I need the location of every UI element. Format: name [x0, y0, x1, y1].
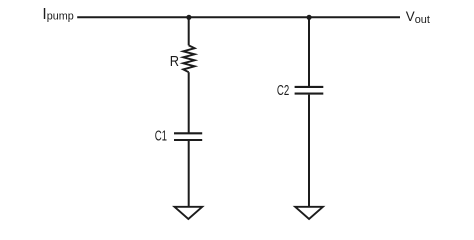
ground left [175, 207, 203, 219]
svg-text:C1: C1 [155, 127, 167, 143]
svg-text:R: R [170, 52, 179, 69]
node junction left [186, 15, 191, 20]
ground right [295, 207, 323, 219]
wire right branch top [308, 17, 310, 86]
svg-text:Vout: Vout [406, 9, 430, 26]
capacitor C1 [174, 133, 202, 140]
capacitor C2 [295, 87, 324, 94]
wire left branch top [188, 17, 190, 45]
wire C2 to ground [308, 95, 310, 207]
node junction right [307, 15, 312, 20]
resistor R [183, 45, 194, 72]
wire C1 to ground [188, 141, 190, 207]
wire top horizontal Ipump to Vout [77, 16, 400, 18]
svg-text:C2: C2 [277, 82, 289, 98]
wire R to C1 [188, 72, 190, 132]
svg-text:Ipump: Ipump [42, 6, 73, 23]
